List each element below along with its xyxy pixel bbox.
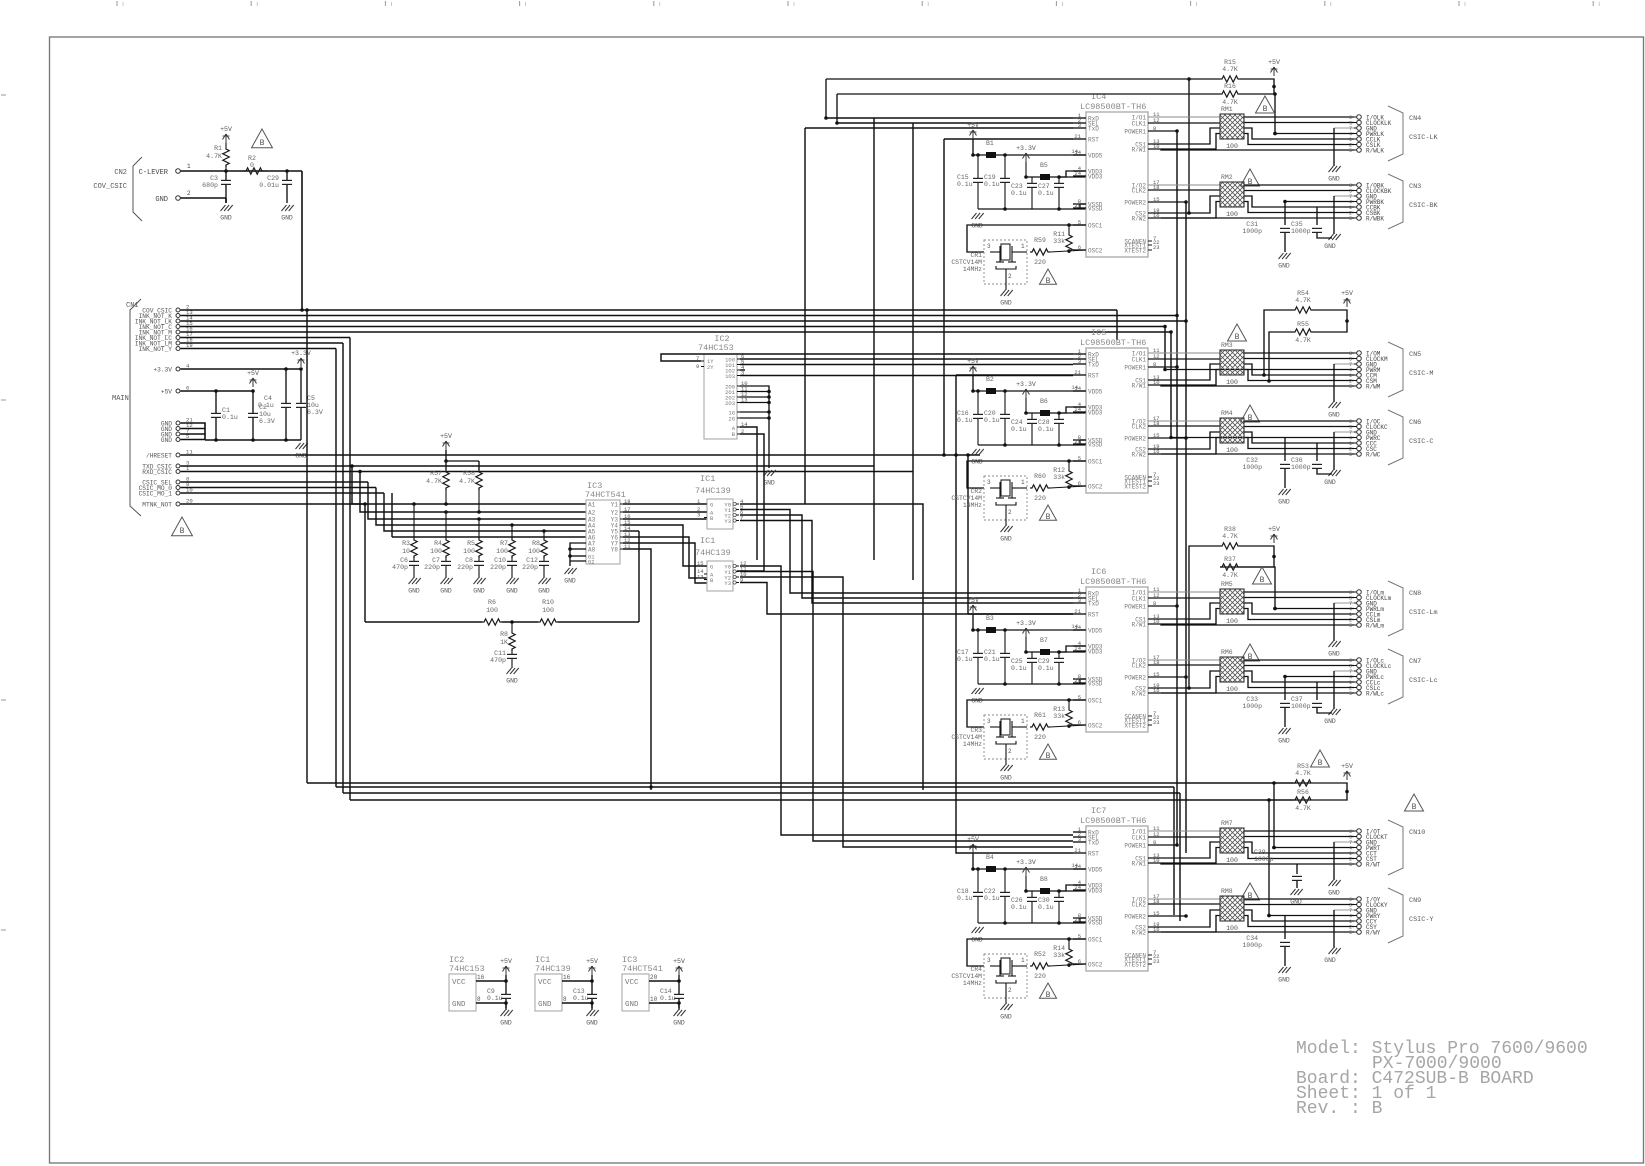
svg-text:1000p: 1000p bbox=[1291, 703, 1311, 710]
capacitor C39 1000p bbox=[1254, 849, 1302, 888]
svg-text:Y1: Y1 bbox=[611, 502, 619, 509]
wire IC2 1O0 out bbox=[740, 358, 1073, 360]
wire Y5 to R10 bbox=[623, 530, 639, 532]
triangle mark B near CN2 bbox=[252, 129, 273, 148]
capacitor C19 0.1u bbox=[984, 153, 1010, 211]
svg-text:C6: C6 bbox=[400, 557, 408, 564]
svg-text:XTEST2: XTEST2 bbox=[1124, 962, 1146, 969]
wire POWER1 IC5 bbox=[1148, 365, 1179, 369]
wire Y1 to IC1 G bbox=[623, 503, 707, 505]
ground below C32 bbox=[1278, 489, 1290, 506]
svg-text:VDD5: VDD5 bbox=[1088, 153, 1103, 160]
svg-text:0.1u: 0.1u bbox=[957, 417, 973, 424]
svg-text:CSIC-BK: CSIC-BK bbox=[1409, 202, 1438, 210]
microcontroller IC7 LC98500BT-TH6 bbox=[1073, 806, 1160, 971]
svg-text:R3: R3 bbox=[402, 540, 410, 547]
svg-text:GND: GND bbox=[1324, 243, 1336, 250]
svg-text:GND: GND bbox=[440, 588, 452, 595]
wire Y2 to IC1 A bbox=[623, 511, 707, 513]
svg-text:R52: R52 bbox=[1034, 951, 1046, 958]
svg-text:1000p: 1000p bbox=[1242, 703, 1262, 710]
wire MTNK_NOT bus bbox=[181, 503, 366, 505]
svg-text:C23: C23 bbox=[1011, 183, 1023, 190]
wire OSC1 bbox=[967, 459, 1086, 488]
wire cluster2 RST feed bbox=[956, 374, 1073, 376]
svg-text:0.1u: 0.1u bbox=[1038, 665, 1054, 672]
svg-text:B3: B3 bbox=[986, 615, 994, 622]
triangle mark B below CN1 bbox=[172, 517, 193, 536]
resistor R53 4.7K bbox=[1293, 763, 1331, 786]
svg-text:4.7K: 4.7K bbox=[1295, 337, 1311, 344]
svg-text:100: 100 bbox=[463, 548, 475, 555]
svg-text:5: 5 bbox=[1349, 691, 1352, 697]
ground connector CN5 bbox=[1328, 402, 1340, 419]
svg-text:4.7K: 4.7K bbox=[206, 153, 222, 160]
svg-text:2: 2 bbox=[1008, 748, 1012, 755]
wire OSC1 bbox=[967, 698, 1086, 727]
svg-text:2: 2 bbox=[187, 190, 191, 197]
power +5V pull-ups IC7 bbox=[1331, 763, 1353, 800]
svg-text:CSTCV14M: CSTCV14M bbox=[951, 259, 982, 266]
wire inter-cluster vertical A bbox=[1175, 131, 1179, 845]
svg-text:B1: B1 bbox=[986, 140, 994, 147]
svg-text:R38: R38 bbox=[1224, 526, 1236, 533]
connector CN3 CSIC-BK bbox=[1349, 174, 1438, 229]
ground of CN1 decoupling bbox=[295, 443, 307, 460]
wire IC1b Y3 bbox=[740, 583, 1073, 615]
connector CN9 CSIC-Y bbox=[1349, 888, 1434, 943]
svg-text:74HC153: 74HC153 bbox=[698, 343, 734, 353]
wire Y6 jog bbox=[623, 537, 707, 578]
svg-text:C29: C29 bbox=[1038, 658, 1050, 665]
resistor R56 4.7K bbox=[1293, 789, 1331, 812]
triangle mark B mid IC6 bbox=[1241, 644, 1260, 662]
wire IC1b Y2 bbox=[740, 577, 1073, 847]
power +5V rail IC4 bbox=[967, 122, 979, 157]
svg-text:GND: GND bbox=[1278, 263, 1290, 270]
wire GND pins bus bbox=[181, 423, 206, 440]
svg-text:+3.3V: +3.3V bbox=[1016, 859, 1036, 866]
svg-text:15: 15 bbox=[697, 560, 704, 567]
svg-text:VCC: VCC bbox=[625, 979, 639, 987]
svg-text:R/W2: R/W2 bbox=[1132, 930, 1147, 937]
svg-text:B: B bbox=[1235, 333, 1240, 342]
svg-text:B2: B2 bbox=[986, 376, 994, 383]
svg-text:VDD3: VDD3 bbox=[1088, 410, 1103, 417]
svg-text:220: 220 bbox=[1034, 259, 1046, 266]
power +3.3V arrow bbox=[291, 350, 311, 367]
wire VSSD rail bbox=[978, 679, 1086, 684]
svg-text:B4: B4 bbox=[986, 854, 994, 861]
svg-text:VDD5: VDD5 bbox=[1088, 389, 1103, 396]
svg-text:R56: R56 bbox=[1297, 789, 1309, 796]
wire pull-up B left bbox=[1267, 332, 1293, 383]
connector CN1 bracket bbox=[112, 299, 141, 516]
ground below C33 bbox=[1278, 728, 1290, 745]
svg-text:R1: R1 bbox=[214, 145, 222, 152]
wire POWER2 IC7 bbox=[1148, 914, 1188, 918]
svg-text:B7: B7 bbox=[1040, 637, 1048, 644]
wire input bus A6 bbox=[392, 493, 586, 537]
svg-text:100: 100 bbox=[1226, 211, 1238, 218]
wire TXD_CSIC bus bbox=[181, 464, 875, 468]
resonator CR2 CSTCV14M bbox=[951, 476, 1027, 520]
svg-text:VSSD: VSSD bbox=[1088, 920, 1103, 927]
svg-text:CSTCV14M: CSTCV14M bbox=[951, 495, 982, 502]
wire POWER1 IC4 bbox=[1148, 129, 1179, 133]
wire IC1a Y1 bbox=[740, 510, 1073, 594]
svg-text:5: 5 bbox=[1349, 930, 1352, 936]
ground below C29 bbox=[281, 205, 293, 222]
wire pull-up A left bbox=[824, 77, 1220, 215]
ground VSSD IC7 bbox=[971, 927, 983, 944]
wire RXD_CSIC bus bbox=[181, 470, 914, 474]
svg-text:GND: GND bbox=[971, 698, 983, 705]
svg-text:C16: C16 bbox=[957, 410, 969, 417]
ground VSSD IC5 bbox=[971, 449, 983, 466]
svg-text:16: 16 bbox=[563, 974, 571, 981]
power +5V rail IC7 bbox=[967, 836, 979, 871]
svg-text:220: 220 bbox=[1034, 495, 1046, 502]
svg-text:VCC: VCC bbox=[452, 979, 466, 987]
svg-text:GND: GND bbox=[1328, 176, 1340, 183]
resistor R16 4.7K bbox=[1220, 83, 1258, 106]
svg-text:R15: R15 bbox=[1224, 59, 1236, 66]
ground below CR3 bbox=[1000, 759, 1012, 782]
svg-text:2: 2 bbox=[1008, 987, 1012, 994]
capacitor C36 1000p bbox=[1291, 444, 1332, 475]
svg-text:GND: GND bbox=[1324, 479, 1336, 486]
svg-text:LC98500BT-TH6: LC98500BT-TH6 bbox=[1080, 816, 1146, 826]
wire Y4 down bbox=[623, 525, 707, 566]
svg-text:100: 100 bbox=[542, 607, 554, 614]
capacitor C27 0.1u bbox=[1038, 175, 1064, 211]
svg-text:13: 13 bbox=[697, 574, 704, 581]
svg-text:R10: R10 bbox=[542, 599, 554, 606]
decoder IC1 74HC139 first half bbox=[695, 474, 744, 529]
svg-text:Y2: Y2 bbox=[611, 510, 619, 517]
power pins IC1 74HC139 bbox=[535, 955, 599, 1027]
svg-text:CR3: CR3 bbox=[970, 727, 982, 734]
svg-text:IC7: IC7 bbox=[1091, 806, 1106, 816]
svg-text:1: 1 bbox=[1021, 718, 1025, 725]
connector CN10 None bbox=[1349, 820, 1425, 875]
svg-text:470p: 470p bbox=[490, 657, 506, 664]
wire power vertical IC4 bbox=[1188, 79, 1190, 213]
svg-text:6.3V: 6.3V bbox=[259, 418, 275, 425]
wires RM6 to connector bbox=[1148, 660, 1354, 709]
svg-text:74HC139: 74HC139 bbox=[695, 486, 731, 496]
ground connector CN9 bbox=[1324, 948, 1340, 964]
svg-text:0.1u: 0.1u bbox=[487, 995, 503, 1002]
ground below C34 bbox=[1278, 967, 1290, 984]
ground below CR1 bbox=[1000, 284, 1012, 307]
svg-text:COV_CSIC: COV_CSIC bbox=[93, 183, 127, 191]
svg-text:0.1u: 0.1u bbox=[1038, 190, 1054, 197]
svg-text:GND: GND bbox=[220, 215, 232, 222]
triangle mark B IC6 bbox=[1039, 744, 1056, 761]
svg-text:+5V: +5V bbox=[1268, 59, 1280, 66]
resistor R52 220 bbox=[1030, 951, 1086, 980]
resistor R5 / capacitor C8 bbox=[457, 517, 486, 594]
ground connector CN7 bbox=[1324, 709, 1340, 725]
buffer IC3 74HCT541 bbox=[585, 481, 631, 566]
power pins IC2 74HC153 bbox=[449, 955, 513, 1027]
svg-text:R/W2: R/W2 bbox=[1132, 452, 1147, 459]
svg-text:GND: GND bbox=[538, 588, 550, 595]
svg-text:+3.3V: +3.3V bbox=[1016, 620, 1036, 627]
svg-text:VSSD: VSSD bbox=[1088, 206, 1103, 213]
svg-text:3: 3 bbox=[987, 957, 991, 964]
svg-text:C32: C32 bbox=[1246, 457, 1258, 464]
wire IC2 1Y out bbox=[661, 354, 1073, 361]
capacitor C31 1000p bbox=[1242, 202, 1290, 253]
svg-text:CLK2: CLK2 bbox=[1132, 188, 1147, 195]
wire trunk TxD vertical bbox=[804, 128, 806, 504]
svg-text:RM7: RM7 bbox=[1221, 820, 1233, 827]
svg-text:0.1u: 0.1u bbox=[1038, 426, 1054, 433]
power +3.3V rail IC4 bbox=[1016, 145, 1086, 180]
capacitor C28 0.1u bbox=[1038, 411, 1064, 447]
ground below IC3 inputs bbox=[564, 568, 576, 585]
svg-text:0.1u: 0.1u bbox=[1011, 426, 1027, 433]
svg-text:2O3: 2O3 bbox=[725, 400, 735, 407]
svg-text:5: 5 bbox=[1349, 216, 1352, 222]
wire power vertical IC5 bbox=[1188, 315, 1190, 449]
resistor R11 33k bbox=[1053, 225, 1072, 253]
svg-text:CN10: CN10 bbox=[1409, 829, 1425, 837]
svg-text:TxD: TxD bbox=[1088, 840, 1099, 847]
connector CN4 CSIC-LK bbox=[1349, 106, 1438, 161]
capacitor C30 0.1u bbox=[1038, 889, 1064, 925]
svg-text:R5: R5 bbox=[467, 540, 475, 547]
svg-text:CN1: CN1 bbox=[126, 302, 139, 310]
svg-text:1: 1 bbox=[187, 163, 191, 170]
svg-text:POWER1: POWER1 bbox=[1124, 129, 1146, 136]
svg-text:GND: GND bbox=[506, 588, 518, 595]
svg-text:C27: C27 bbox=[1038, 183, 1050, 190]
svg-text:1: 1 bbox=[1021, 479, 1025, 486]
svg-text:RST: RST bbox=[1088, 851, 1099, 858]
multiplexer IC2 74HC153 bbox=[696, 334, 748, 439]
triangle mark B mid IC4 bbox=[1241, 169, 1260, 187]
svg-text:2G: 2G bbox=[728, 416, 735, 423]
svg-text:VDD3: VDD3 bbox=[1088, 649, 1103, 656]
microcontroller IC5 LC98500BT-TH6 bbox=[1073, 328, 1160, 493]
power +3.3V rail IC6 bbox=[1016, 620, 1086, 655]
svg-text:74HCT541: 74HCT541 bbox=[585, 490, 626, 500]
svg-text:0: 0 bbox=[250, 162, 254, 169]
svg-text:R/WC: R/WC bbox=[1366, 451, 1381, 458]
wire pull-up B left bbox=[1267, 798, 1311, 917]
svg-text:CSIC-Lm: CSIC-Lm bbox=[1409, 609, 1438, 617]
svg-text:OSC1: OSC1 bbox=[1088, 698, 1103, 705]
connector CN2 pin 1 C-LEVER bbox=[139, 163, 191, 177]
svg-text:1K: 1K bbox=[500, 639, 508, 646]
ground below IC2 bbox=[763, 470, 775, 487]
svg-text:CLK1: CLK1 bbox=[1132, 596, 1147, 603]
svg-text:4.7K: 4.7K bbox=[459, 478, 475, 485]
svg-text:23: 23 bbox=[1153, 480, 1160, 487]
svg-text:B: B bbox=[1263, 105, 1268, 114]
svg-text:Rev. : B: Rev. : B bbox=[1296, 1099, 1383, 1119]
wire IC2 1O2 out bbox=[740, 369, 745, 371]
wire Y8 down bbox=[623, 549, 653, 790]
wire trunk c1 SEL bbox=[912, 123, 914, 580]
svg-text:GND: GND bbox=[161, 437, 172, 444]
svg-text:R/W1: R/W1 bbox=[1132, 622, 1147, 629]
wire cluster1 RST feed bbox=[944, 138, 1073, 140]
svg-text:100: 100 bbox=[496, 548, 508, 555]
wire GND pin to ground bbox=[181, 198, 227, 203]
svg-text:TxD: TxD bbox=[1088, 126, 1099, 133]
svg-text:+5V: +5V bbox=[967, 358, 979, 365]
svg-text:0.1u: 0.1u bbox=[984, 181, 1000, 188]
svg-text:G: G bbox=[710, 564, 713, 571]
svg-text:CN6: CN6 bbox=[1409, 419, 1421, 427]
wire jog MO0 to A4 bbox=[376, 488, 586, 526]
svg-text:R12: R12 bbox=[1053, 467, 1065, 474]
svg-text:CR4: CR4 bbox=[970, 966, 982, 973]
resonator CR3 CSTCV14M bbox=[951, 715, 1027, 759]
svg-text:220p: 220p bbox=[522, 564, 538, 571]
wire COV branch down bbox=[307, 310, 1293, 783]
connector CN1 pins bbox=[135, 304, 193, 509]
svg-text:8: 8 bbox=[563, 996, 567, 1003]
svg-text:C19: C19 bbox=[984, 174, 996, 181]
resistor network RM2 100 bbox=[1220, 174, 1244, 218]
resistor R8 1K bbox=[500, 622, 515, 651]
resistor R10 100 bbox=[538, 599, 558, 625]
wire INK C down bbox=[1163, 325, 1167, 370]
svg-text:R/W2: R/W2 bbox=[1132, 691, 1147, 698]
wire POWER2 IC5 bbox=[1148, 436, 1188, 440]
svg-text:R57: R57 bbox=[430, 470, 442, 477]
resistor R1 4.7K bbox=[206, 143, 229, 171]
svg-text:GND: GND bbox=[1324, 957, 1336, 964]
resonator CR4 CSTCV14M bbox=[951, 954, 1027, 998]
ruler tick marks bbox=[1, 1, 1599, 930]
wire trunk c1 RxD bbox=[873, 118, 875, 560]
svg-text:2: 2 bbox=[1008, 509, 1012, 516]
svg-text:+5V: +5V bbox=[1341, 290, 1353, 297]
svg-text:GND: GND bbox=[1000, 536, 1012, 543]
capacitor C37 1000p bbox=[1291, 683, 1332, 714]
svg-text:RM5: RM5 bbox=[1221, 581, 1233, 588]
svg-text:1: 1 bbox=[1021, 243, 1025, 250]
svg-text:100: 100 bbox=[1226, 447, 1238, 454]
svg-text:/HRESET: /HRESET bbox=[146, 452, 172, 459]
wires RM3 to connector bbox=[1148, 353, 1354, 402]
svg-text:CSIC-Lc: CSIC-Lc bbox=[1409, 677, 1438, 685]
svg-text:C28: C28 bbox=[1038, 419, 1050, 426]
resistor R38 4.7K bbox=[1220, 526, 1258, 549]
ground below CR4 bbox=[1000, 998, 1012, 1021]
resistor R15 4.7K bbox=[1220, 59, 1258, 82]
svg-text:B5: B5 bbox=[1040, 162, 1048, 169]
svg-text:RXD_CSIC: RXD_CSIC bbox=[142, 469, 172, 476]
svg-text:C21: C21 bbox=[984, 649, 996, 656]
wire MTNK vertical to R6 bbox=[365, 504, 482, 622]
wire cluster1 RxD feed bbox=[826, 117, 1073, 119]
triangle mark B IC7 bbox=[1039, 983, 1056, 1000]
resistor R58 4.7K bbox=[459, 470, 482, 514]
svg-text:C35: C35 bbox=[1291, 221, 1303, 228]
wire IC1a Y2 bbox=[740, 515, 1073, 598]
svg-text:3: 3 bbox=[987, 243, 991, 250]
svg-text:+5V: +5V bbox=[967, 122, 979, 129]
svg-text:GND: GND bbox=[1000, 775, 1012, 782]
capacitor C21 0.1u bbox=[984, 628, 1010, 686]
svg-text:A1: A1 bbox=[588, 502, 596, 509]
wire IC1b Y1 bbox=[740, 572, 1073, 842]
svg-text:1000p: 1000p bbox=[1242, 464, 1262, 471]
svg-text:0.1u: 0.1u bbox=[957, 656, 973, 663]
svg-text:C33: C33 bbox=[1246, 696, 1258, 703]
svg-text:R/WM: R/WM bbox=[1366, 383, 1381, 390]
wire INK_NOT_C bus bbox=[181, 326, 1166, 328]
svg-text:2: 2 bbox=[1008, 273, 1012, 280]
wire jog MO1 to A5 bbox=[384, 493, 586, 531]
ground connector CN4 bbox=[1328, 166, 1340, 183]
svg-text:CN3: CN3 bbox=[1409, 183, 1421, 191]
svg-text:R8: R8 bbox=[500, 631, 508, 638]
svg-text:RST: RST bbox=[1088, 612, 1099, 619]
svg-text:0.01u: 0.01u bbox=[259, 182, 279, 189]
svg-text:0.1u: 0.1u bbox=[957, 181, 973, 188]
svg-text:Y3: Y3 bbox=[724, 580, 731, 587]
svg-text:IC6: IC6 bbox=[1091, 567, 1106, 577]
resistor network RM1 100 bbox=[1220, 106, 1244, 150]
svg-text:CSIC-C: CSIC-C bbox=[1409, 438, 1433, 446]
svg-text:CLK2: CLK2 bbox=[1132, 902, 1147, 909]
svg-text:0.1u: 0.1u bbox=[984, 417, 1000, 424]
svg-text:GND: GND bbox=[473, 588, 485, 595]
resistor R60 220 bbox=[1030, 473, 1086, 502]
svg-text:B8: B8 bbox=[1040, 876, 1048, 883]
svg-text:3: 3 bbox=[987, 479, 991, 486]
wires RM2 to connector bbox=[1148, 185, 1354, 234]
svg-text:VDD5: VDD5 bbox=[1088, 867, 1103, 874]
wire CSIC_MO_0 bus bbox=[181, 487, 377, 489]
svg-text:CN7: CN7 bbox=[1409, 658, 1421, 666]
svg-text:INK_NOT_Y: INK_NOT_Y bbox=[139, 346, 173, 353]
svg-text:VCC: VCC bbox=[538, 979, 552, 987]
svg-text:B: B bbox=[1046, 513, 1051, 522]
svg-text:R37: R37 bbox=[1224, 556, 1236, 563]
svg-text:GND: GND bbox=[1278, 977, 1290, 984]
wire /HRESET bus bbox=[181, 453, 981, 457]
svg-text:R54: R54 bbox=[1297, 290, 1309, 297]
svg-text:GND: GND bbox=[1000, 1014, 1012, 1021]
svg-text:+5V: +5V bbox=[1341, 763, 1353, 770]
wire trunk c3 RST bbox=[967, 455, 969, 614]
svg-text:1: 1 bbox=[1021, 957, 1025, 964]
svg-text:10: 10 bbox=[650, 996, 658, 1003]
wire pull-up B left bbox=[835, 92, 1277, 135]
ground connector CN6 bbox=[1324, 470, 1340, 486]
svg-text:GND: GND bbox=[506, 678, 518, 685]
svg-text:GND: GND bbox=[155, 196, 168, 204]
svg-text:B: B bbox=[180, 527, 185, 536]
svg-text:OSC2: OSC2 bbox=[1088, 962, 1103, 969]
connector CN6 CSIC-C bbox=[1349, 410, 1434, 465]
svg-text:+5V: +5V bbox=[586, 958, 598, 965]
capacitor C20 0.1u bbox=[984, 389, 1010, 447]
svg-text:C10: C10 bbox=[494, 557, 506, 564]
wire OSC1 bbox=[967, 937, 1086, 966]
svg-text:GND: GND bbox=[281, 215, 293, 222]
